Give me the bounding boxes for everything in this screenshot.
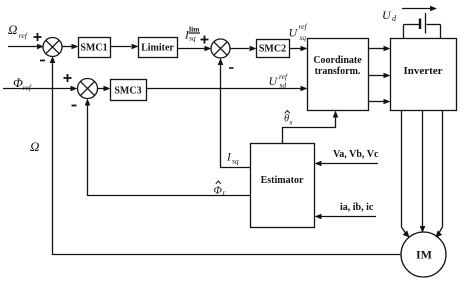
svg-text:SMC2: SMC2 bbox=[259, 44, 286, 55]
wire SMC1 to Limiter bbox=[111, 46, 132, 48]
svg-text:sq: sq bbox=[232, 157, 239, 166]
node Phi_ref label bbox=[13, 75, 32, 92]
svg-text:ref: ref bbox=[23, 83, 32, 92]
wire Phi_ref input to summing junction S3 bbox=[3, 88, 71, 90]
svg-text:SMC3: SMC3 bbox=[114, 86, 141, 97]
svg-text:IM: IM bbox=[416, 248, 432, 262]
block Limiter bbox=[139, 38, 178, 58]
svg-text:Φ: Φ bbox=[214, 185, 223, 197]
svg-text:r: r bbox=[223, 188, 226, 197]
wire Inverter to IM phase a bbox=[402, 110, 410, 238]
wire Coordinate transform to Inverter (bottom) bbox=[369, 101, 384, 103]
svg-text:U: U bbox=[289, 26, 299, 40]
label I_sq_lim bbox=[184, 25, 200, 43]
svg-text:Φ: Φ bbox=[13, 75, 23, 90]
svg-text:d: d bbox=[392, 14, 397, 23]
plus sign at S2 bbox=[201, 36, 209, 44]
node Omega_ref label bbox=[8, 22, 28, 40]
svg-text:ref: ref bbox=[299, 22, 308, 31]
svg-text:U: U bbox=[382, 8, 392, 22]
wire S1 to SMC1 bbox=[62, 46, 72, 48]
svg-text:ia, ib, ic: ia, ib, ic bbox=[340, 202, 374, 213]
svg-text:Limiter: Limiter bbox=[141, 43, 174, 54]
wire IM speed feedback to S1 bbox=[50, 56, 402, 255]
svg-text:transform.: transform. bbox=[315, 66, 361, 77]
wire Coordinate transform to Inverter (middle) bbox=[369, 75, 384, 77]
wire Estimator flux feedback to S3 bbox=[85, 99, 251, 196]
plus sign at S1 bbox=[34, 33, 42, 41]
svg-text:Ω: Ω bbox=[8, 22, 17, 37]
plus sign at S3 bbox=[64, 74, 72, 82]
minus sign at S3 bbox=[72, 105, 77, 107]
label U_d bbox=[382, 8, 397, 23]
svg-text:ref: ref bbox=[19, 31, 28, 40]
wire Va Vb Vc input to Estimator bbox=[322, 163, 379, 165]
label theta_s_hat bbox=[284, 111, 293, 127]
svg-text:Estimator: Estimator bbox=[261, 175, 304, 186]
svg-text:Inverter: Inverter bbox=[403, 65, 442, 77]
battery U_d (DC link) bbox=[404, 13, 441, 39]
summing junction S2 bbox=[211, 39, 230, 58]
block SMC2 bbox=[257, 40, 290, 58]
wire ia ib ic input to Estimator bbox=[322, 216, 377, 218]
block Estimator bbox=[251, 144, 315, 228]
block SMC3 bbox=[111, 80, 147, 101]
svg-text:θ: θ bbox=[284, 114, 289, 125]
summing junction S1 bbox=[43, 38, 62, 57]
label I_sq bbox=[226, 152, 239, 166]
motor IM bbox=[401, 232, 446, 277]
summing junction S3 bbox=[78, 79, 98, 99]
label U_sq_ref bbox=[289, 22, 308, 42]
svg-text:Va, Vb, Vc: Va, Vb, Vc bbox=[333, 149, 379, 160]
wire S2 to SMC2 bbox=[230, 48, 249, 50]
label U_sd_ref bbox=[269, 72, 288, 90]
minus sign at S1 bbox=[40, 60, 45, 62]
wire Estimator theta_s to Coordinate transform bbox=[283, 111, 339, 144]
wire SMC3 to Coordinate transform (U_sd_ref net) bbox=[147, 88, 301, 90]
block SMC1 bbox=[79, 38, 111, 58]
wire Estimator I_sq feedback to S2 bbox=[218, 58, 251, 168]
wire S3 to SMC3 bbox=[98, 88, 104, 90]
svg-text:SMC1: SMC1 bbox=[80, 43, 107, 54]
label Phi_r_hat bbox=[214, 181, 226, 197]
svg-text:s: s bbox=[290, 118, 293, 127]
svg-text:U: U bbox=[269, 74, 279, 88]
wire Inverter to IM phase b bbox=[420, 111, 426, 234]
wire Omega_ref input to summing junction S1 bbox=[8, 46, 37, 48]
minus sign at S2 bbox=[229, 67, 234, 69]
svg-text:Ω: Ω bbox=[30, 139, 39, 154]
svg-text:lim: lim bbox=[189, 25, 200, 34]
block Inverter bbox=[391, 39, 457, 111]
svg-text:sq: sq bbox=[189, 34, 196, 43]
wire Limiter to summing junction S2 bbox=[178, 48, 205, 50]
wire Inverter to IM phase c bbox=[436, 110, 443, 238]
arrow DC-link current direction bbox=[402, 8, 430, 10]
svg-text:sq: sq bbox=[300, 33, 307, 42]
svg-text:Coordinate: Coordinate bbox=[313, 55, 362, 66]
wire Coordinate transform to Inverter (top) bbox=[369, 48, 384, 50]
block Coordinate transform U2 bbox=[308, 39, 369, 111]
wire SMC2 to Coordinate transform bbox=[290, 48, 301, 50]
